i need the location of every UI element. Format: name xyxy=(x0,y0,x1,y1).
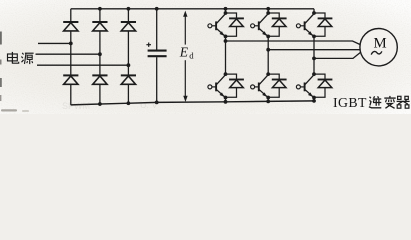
diode D1 (rectifier top, leg 1) xyxy=(63,22,78,31)
top DC bus xyxy=(71,8,314,10)
wire rectifier leg 3 middle xyxy=(127,31,129,76)
node top bus / leg 2 xyxy=(98,7,102,11)
diode D3 (rectifier top, leg 3) xyxy=(121,22,136,31)
IGBT Q1 with freewheel diode (upper leg 1) xyxy=(208,11,244,38)
diode D5 (rectifier bottom, leg 2) xyxy=(92,75,107,84)
wire rectifier leg 2 lower xyxy=(98,84,102,106)
IGBT Q5 with freewheel diode (lower leg 2) xyxy=(251,72,287,99)
wire capacitor bottom lead xyxy=(155,57,159,104)
wire rectifier leg 1 lower xyxy=(70,84,72,105)
wire phase C input xyxy=(37,63,130,67)
wire rectifier leg 3 upper xyxy=(127,9,129,22)
svg-text:IGBT: IGBT xyxy=(333,95,367,110)
label 电源 (power source) xyxy=(8,52,34,64)
wire leg 1 output-to-lower xyxy=(225,41,227,74)
node top bus / capacitor xyxy=(155,7,159,11)
label E_d xyxy=(179,44,194,60)
node top bus / leg 3 xyxy=(126,7,130,11)
capacitor C1 xyxy=(148,51,167,57)
wire output U to motor xyxy=(226,41,361,45)
scan artifact ghost print-through xyxy=(62,100,158,111)
wire leg 3 output-to-lower xyxy=(313,58,315,74)
IGBT Q4 with freewheel diode (lower leg 1) xyxy=(208,72,244,99)
capacitor C1 polarity + xyxy=(146,43,151,47)
wire leg 2 output-to-lower xyxy=(267,50,269,74)
wire rectifier leg 1 middle xyxy=(70,31,72,76)
bottom DC bus xyxy=(71,101,315,105)
IGBT Q3 with freewheel diode (upper leg 3) xyxy=(296,11,332,38)
wire output V to motor xyxy=(268,49,360,51)
svg-text:SPWM: SPWM xyxy=(62,101,90,111)
svg-text:U. V: U. V xyxy=(140,100,158,110)
wire leg 3 lower-to-bus xyxy=(312,98,316,103)
wire leg 1 lower-to-bus xyxy=(224,98,228,104)
paper background xyxy=(0,0,411,114)
wire rectifier leg 2 upper xyxy=(99,9,101,22)
wire leg 3 upper-to-output xyxy=(312,36,316,60)
motor M1 (AC motor) xyxy=(360,29,397,66)
wire phase B input xyxy=(36,52,102,56)
diode D2 (rectifier top, leg 2) xyxy=(92,22,107,31)
wire leg 2 lower-to-bus xyxy=(266,98,270,104)
diode D4 (rectifier bottom, leg 1) xyxy=(63,75,78,84)
node top bus / inverter leg 3 xyxy=(313,9,315,13)
svg-text:M: M xyxy=(374,36,387,52)
node top bus / inverter leg 1 xyxy=(224,7,228,13)
diode D6 (rectifier bottom, leg 3) xyxy=(121,75,136,84)
scan artifact bottom-left smudge xyxy=(1,109,29,111)
node top bus / inverter leg 2 xyxy=(266,7,270,13)
voltage arrow E_d (double-headed) xyxy=(183,11,188,102)
svg-text:d: d xyxy=(189,50,194,60)
wire leg 1 upper-to-output xyxy=(224,36,228,42)
wire leg 2 upper-to-output xyxy=(266,36,270,51)
wire capacitor top lead xyxy=(156,9,158,50)
IGBT Q6 with freewheel diode (lower leg 3) xyxy=(296,72,332,99)
wire rectifier leg 3 lower xyxy=(126,84,130,105)
caption IGBT xyxy=(333,95,367,110)
wire rectifier leg 2 middle xyxy=(99,31,101,76)
wire output W to motor xyxy=(314,52,361,58)
wire rectifier leg 1 upper xyxy=(70,9,72,22)
scan artifact left edge xyxy=(0,32,2,102)
IGBT Q2 with freewheel diode (upper leg 2) xyxy=(251,11,287,38)
caption 逆变器 (inverter) xyxy=(369,96,410,108)
svg-text:E: E xyxy=(179,44,189,59)
wire phase A input xyxy=(38,42,73,46)
